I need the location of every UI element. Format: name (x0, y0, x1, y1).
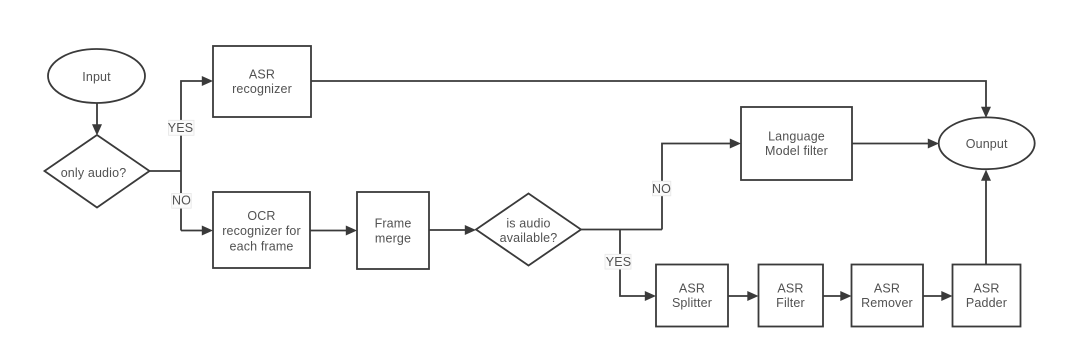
arrowhead into Ounput from top run (981, 107, 991, 118)
svg-text:YES: YES (606, 255, 631, 269)
node OCR recognizer for each frame (process box) (213, 192, 310, 268)
wire ASR Splitter to ASR Filter (728, 295, 748, 297)
svg-text:ASR: ASR (249, 67, 275, 81)
svg-text:each frame: each frame (229, 239, 293, 253)
node ASR recognizer (process box) (213, 46, 311, 117)
wire Frame merge to is-audio diamond (429, 229, 466, 231)
node ASR Filter (process box) (759, 265, 824, 327)
wire NO branch up to Language Model filter (662, 144, 731, 230)
svg-text:Input: Input (82, 70, 111, 84)
node is audio available? (decision diamond) (476, 194, 581, 266)
node Ounput (end ellipse) (939, 117, 1035, 169)
svg-text:ASR: ASR (777, 282, 803, 296)
svg-text:OCR: OCR (247, 209, 275, 223)
wire only-audio right vertex to trunk (150, 170, 182, 172)
label YES (only audio branch) (168, 120, 194, 135)
arrowhead into ASR Splitter (645, 291, 656, 301)
label YES (is audio branch) (605, 254, 631, 269)
svg-text:Frame: Frame (375, 217, 412, 231)
label NO (is audio branch) (652, 181, 671, 196)
arrowhead into ASR Padder (941, 291, 952, 301)
svg-text:ASR: ASR (679, 282, 705, 296)
arrowhead into Ounput from Language Model filter (928, 139, 939, 149)
wire ASR Padder up to Ounput (985, 181, 987, 265)
wire Language Model filter to Ounput (852, 143, 929, 145)
node ASR Splitter (process box) (656, 265, 728, 327)
wire OCR recognizer to Frame merge (310, 230, 347, 232)
svg-text:recognizer: recognizer (232, 82, 292, 96)
arrowhead into only-audio diamond (92, 124, 102, 135)
node Input (start ellipse) (48, 49, 145, 103)
wire ASR recognizer to Ounput (long top run) (311, 81, 986, 107)
arrowhead into ASR Filter (747, 291, 758, 301)
node ASR Remover (process box) (852, 265, 924, 327)
arrowhead into OCR recognizer (202, 226, 213, 236)
arrowhead into ASR Remover (840, 291, 851, 301)
wire YES branch down to ASR Splitter (620, 230, 646, 297)
arrowhead into ASR recognizer (202, 76, 213, 86)
svg-text:Language: Language (768, 130, 825, 144)
wire Input to only-audio diamond (96, 103, 98, 125)
label NO (only audio branch) (172, 193, 192, 208)
wire ASR Remover to ASR Padder (923, 295, 942, 297)
svg-text:only audio?: only audio? (61, 166, 127, 180)
svg-text:Ounput: Ounput (966, 137, 1008, 151)
arrowhead into Language Model filter (730, 139, 741, 149)
svg-text:available?: available? (500, 231, 558, 245)
svg-text:NO: NO (172, 194, 191, 208)
svg-text:NO: NO (652, 182, 671, 196)
node Language Model filter (process box) (741, 107, 852, 180)
node only audio? (decision diamond) (45, 135, 150, 208)
svg-text:ASR: ASR (973, 282, 999, 296)
arrowhead into Frame merge (346, 226, 357, 236)
wire is-audio right vertex to NO branch (581, 229, 662, 231)
wire ASR Filter to ASR Remover (823, 295, 841, 297)
svg-text:Remover: Remover (861, 296, 913, 310)
svg-text:merge: merge (375, 232, 411, 246)
svg-text:Splitter: Splitter (672, 296, 712, 310)
wire NO branch to OCR recognizer (181, 230, 203, 232)
svg-text:Model filter: Model filter (765, 144, 828, 158)
node ASR Padder (process box) (953, 265, 1021, 327)
svg-text:is audio: is audio (506, 217, 550, 231)
arrowhead into Ounput from ASR Padder (981, 170, 991, 181)
svg-text:Filter: Filter (776, 296, 805, 310)
wire trunk vertical YES/NO branch (181, 81, 203, 231)
svg-text:YES: YES (168, 121, 193, 135)
svg-text:ASR: ASR (874, 282, 900, 296)
node Frame merge (process box) (357, 192, 429, 269)
arrowhead into is-audio diamond (465, 225, 476, 235)
svg-text:recognizer for: recognizer for (222, 224, 301, 238)
svg-text:Padder: Padder (966, 296, 1007, 310)
